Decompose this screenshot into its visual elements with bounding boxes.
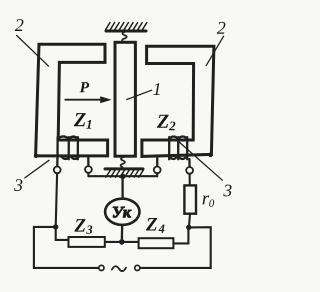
leader line to label 3 left: [25, 160, 49, 178]
label 2 right: [217, 22, 226, 34]
spring link top: [122, 32, 127, 42]
fixed support bottom (hatched wall): [105, 169, 143, 177]
wire left outer loop: [34, 227, 99, 268]
terminal circle left coil outer: [54, 167, 61, 174]
label Z4: [146, 218, 165, 233]
AC source terminal left: [99, 265, 104, 270]
AC source terminal right: [135, 265, 140, 270]
label 2 left: [15, 19, 24, 31]
leader line to label 2 right: [206, 36, 223, 65]
wire right junction to Z4: [173, 227, 188, 243]
wire indicator to bridge midpoint: [121, 225, 124, 242]
label Z1: [74, 113, 91, 129]
wire left terminal down: [56, 173, 57, 227]
junction dot right: [186, 225, 191, 230]
right magnetic core 2: [142, 46, 214, 156]
resistor Z3: [69, 237, 105, 247]
ink blob left core corner: [34, 154, 38, 158]
wire inner terminals to bus: [87, 173, 89, 176]
wire bridge middle: [105, 241, 139, 243]
leader line to label 3 right: [178, 141, 222, 180]
AC source tilde: [112, 266, 126, 271]
terminal circle left coil inner: [85, 166, 92, 173]
junction dot left: [53, 224, 58, 229]
label Z2: [157, 115, 175, 131]
wire right outer loop: [140, 227, 211, 268]
armature 1 (central movable bar): [115, 42, 135, 156]
spring link bottom: [121, 157, 125, 167]
label 3 left: [14, 179, 22, 191]
winding Z1: [57, 136, 88, 166]
leader line to label 1: [127, 90, 152, 99]
fixed support top (hatched wall): [106, 23, 147, 31]
force arrow P: [65, 96, 111, 103]
wire r0 to junction: [189, 214, 190, 228]
wire bus to indicator: [121, 176, 123, 199]
wire right terminal to r0: [189, 174, 191, 186]
junction dot bus center: [120, 174, 126, 180]
wire bus: [88, 175, 157, 177]
ink blob right core corner: [208, 152, 213, 157]
label P: [80, 82, 90, 92]
label Z3: [74, 219, 92, 234]
indicator UK: [105, 199, 139, 225]
label r0: [203, 195, 215, 206]
label 3 right: [223, 185, 231, 197]
wire left junction to Z3: [56, 227, 69, 240]
terminal circle right coil outer: [186, 167, 193, 174]
terminal circle right coil inner: [154, 167, 161, 174]
junction dot bridge midpoint: [119, 239, 125, 245]
left magnetic core 2: [36, 44, 108, 156]
leader line to label 2 left: [17, 35, 49, 66]
resistor Z4: [139, 238, 174, 248]
label 1: [153, 83, 159, 95]
resistor r0: [184, 185, 196, 213]
winding Z2: [157, 137, 189, 168]
